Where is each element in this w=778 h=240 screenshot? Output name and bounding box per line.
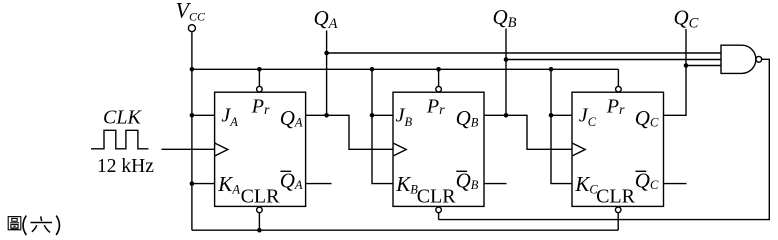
wire QB vertical from label bbox=[505, 29, 507, 116]
figure caption: opening parenthesis bbox=[23, 216, 26, 235]
CLK waveform symbol bbox=[91, 130, 149, 149]
wire QB-bar output stub bbox=[484, 183, 507, 185]
U1 preset bubble bbox=[257, 86, 263, 92]
QB-bar overline bbox=[456, 170, 467, 172]
junction KA input bbox=[190, 181, 195, 186]
svg-text:QA: QA bbox=[280, 169, 303, 193]
wire CLK input bbox=[162, 148, 215, 150]
wire KA input stub bbox=[192, 183, 215, 185]
figure caption: character 六 bbox=[31, 216, 53, 232]
svg-text:CLR: CLR bbox=[241, 185, 281, 207]
svg-text:QB: QB bbox=[456, 169, 479, 193]
junction U1 clear on bottom rail bbox=[257, 228, 262, 233]
U2 clock triangle bbox=[393, 143, 406, 156]
flip-flop U2 box bbox=[393, 92, 484, 206]
wire U1 preset stub bbox=[258, 69, 260, 86]
svg-text:Pr: Pr bbox=[606, 95, 625, 118]
NAND gate U4 body bbox=[721, 45, 756, 73]
figure caption: character 圖 bbox=[8, 217, 21, 230]
wire QA to NAND input bbox=[327, 52, 721, 54]
svg-text:CLR: CLR bbox=[417, 185, 457, 207]
wire U2 clear stub to NAND net bbox=[438, 213, 440, 220]
wire QC vertical and output stub bbox=[664, 29, 687, 115]
junction U2 feeder on rail bbox=[370, 67, 375, 72]
svg-text:CLK: CLK bbox=[103, 107, 142, 129]
svg-text:JB: JB bbox=[396, 104, 413, 128]
wire VCC top rail bbox=[192, 68, 619, 70]
U2 clear bubble bbox=[436, 207, 442, 213]
wire U2 preset stub bbox=[438, 69, 440, 86]
U2 preset bubble bbox=[436, 86, 442, 92]
svg-text:12 kHz: 12 kHz bbox=[97, 156, 154, 177]
wire QA vertical from label bbox=[326, 31, 328, 116]
U3 clear bubble bbox=[615, 207, 621, 213]
wire QB output to U3 clock bbox=[484, 115, 572, 149]
wire QB to NAND input bbox=[506, 59, 721, 61]
junction U3 feeder on rail bbox=[549, 67, 554, 72]
figure caption: closing parenthesis bbox=[56, 216, 59, 235]
wire U3 clear stub bbox=[617, 213, 619, 231]
svg-text:QB: QB bbox=[456, 106, 479, 130]
svg-text:CLR: CLR bbox=[596, 185, 636, 207]
U3 clock triangle bbox=[572, 143, 585, 156]
wire U3 preset stub bbox=[617, 69, 619, 86]
junction QB to NAND tap bbox=[504, 57, 509, 62]
QA-bar overline bbox=[280, 170, 291, 172]
svg-text:JA: JA bbox=[221, 104, 238, 128]
wire VCC feeder U2 J/K bbox=[372, 69, 393, 183]
junction QA output node bbox=[324, 113, 329, 118]
svg-text:Pr: Pr bbox=[426, 95, 445, 118]
wire QC-bar output stub bbox=[664, 183, 687, 185]
svg-text:KA: KA bbox=[217, 172, 240, 196]
svg-text:QC: QC bbox=[635, 106, 659, 130]
svg-text:KB: KB bbox=[395, 172, 418, 196]
junction U1 preset on rail bbox=[257, 67, 262, 72]
flip-flop U3 box bbox=[572, 92, 664, 206]
svg-text:QC: QC bbox=[674, 6, 699, 32]
wire QA output to U2 clock bbox=[306, 115, 393, 149]
junction JB input bbox=[370, 113, 375, 118]
flip-flop U1 box bbox=[215, 92, 306, 206]
wire QC to NAND input bbox=[686, 65, 721, 67]
QC-bar overline bbox=[636, 170, 647, 172]
svg-text:Pr: Pr bbox=[251, 95, 270, 118]
wire U1 clear stub bbox=[258, 213, 260, 231]
svg-text:KC: KC bbox=[574, 172, 598, 196]
U3 preset bubble bbox=[616, 86, 622, 92]
power terminal VCC bbox=[188, 25, 195, 32]
wire QA-bar output stub bbox=[306, 183, 332, 185]
svg-text:JC: JC bbox=[579, 104, 597, 128]
svg-text:QA: QA bbox=[280, 106, 303, 130]
U1 clear bubble bbox=[257, 207, 263, 213]
svg-text:VCC: VCC bbox=[176, 0, 206, 24]
junction U2 preset on rail bbox=[436, 67, 441, 72]
svg-text:QB: QB bbox=[493, 5, 517, 31]
wire JB input stub bbox=[372, 114, 393, 116]
junction JA input bbox=[190, 113, 195, 118]
junction QA to NAND tap bbox=[324, 51, 329, 56]
wire VCC vertical bus bbox=[191, 31, 193, 230]
wire bottom clear rail bbox=[192, 229, 618, 231]
U1 clock triangle bbox=[215, 143, 228, 156]
junction QB output node bbox=[504, 113, 509, 118]
wire JC input stub bbox=[551, 114, 572, 116]
junction JC input bbox=[549, 113, 554, 118]
svg-text:QA: QA bbox=[314, 6, 338, 32]
wire NAND output feedback to clears bbox=[439, 59, 770, 219]
NAND output bubble bbox=[756, 56, 762, 62]
wire JA input stub bbox=[192, 114, 215, 116]
junction QC to NAND tap bbox=[684, 63, 689, 68]
svg-text:QC: QC bbox=[635, 169, 659, 193]
junction VCC at top rail bbox=[190, 67, 195, 72]
wire VCC feeder U3 J/K bbox=[551, 69, 572, 183]
